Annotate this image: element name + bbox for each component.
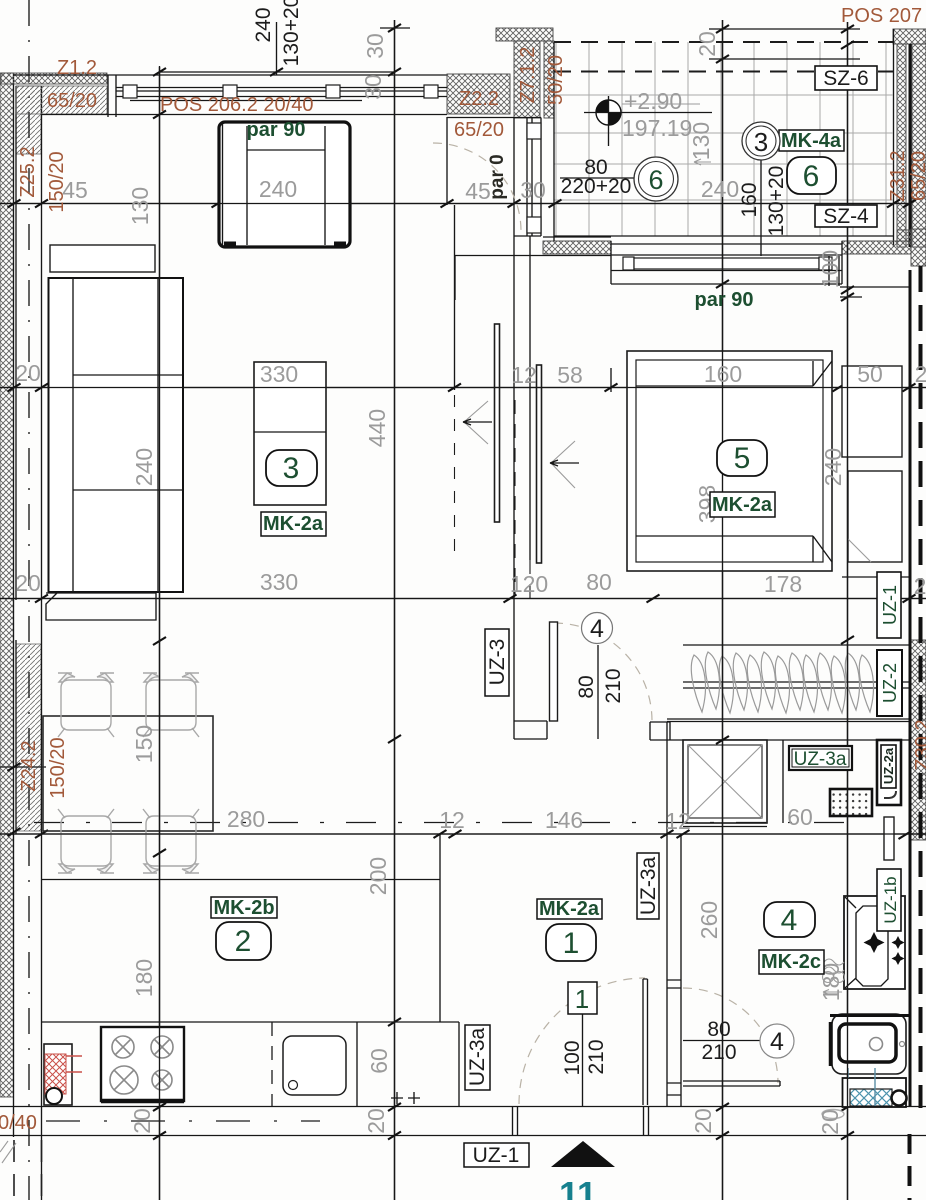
svg-text:50/20: 50/20 <box>545 55 567 105</box>
dim extension line x276 <box>276 22 278 75</box>
window POS 206.2 frame lines <box>116 88 447 101</box>
svg-text:3: 3 <box>754 127 768 157</box>
thin duct rect <box>884 817 894 860</box>
svg-text:120: 120 <box>510 571 548 597</box>
dim extension line x394 <box>394 20 396 1200</box>
box MK-4a <box>779 130 844 152</box>
wall Z2.2 crosshatch block <box>447 74 510 114</box>
stair diagonal marks bottom-left <box>0 1141 16 1163</box>
survey marker circle <box>584 96 712 146</box>
wardrobe bottom double line <box>667 719 909 722</box>
washbasin bath4 <box>844 896 905 989</box>
wall piece left of elevator <box>650 722 670 834</box>
overhang dashed line lower <box>554 71 893 73</box>
svg-text:280: 280 <box>227 806 265 832</box>
wall left inner hatched segment upper <box>16 86 41 154</box>
svg-text:20: 20 <box>817 1109 843 1135</box>
leader line door5 tag <box>597 645 599 739</box>
box UZ-1b rotated right <box>877 869 901 931</box>
svg-text:150: 150 <box>131 725 157 763</box>
dim line y387 full <box>0 387 926 389</box>
door1 leaf vertical <box>643 979 648 1105</box>
wall living/bedroom divider double line <box>514 236 530 739</box>
faucet squiggle gray <box>823 959 845 995</box>
dim extension line x847 <box>847 22 849 1200</box>
svg-text:178: 178 <box>764 571 802 597</box>
dim line y203 <box>0 203 909 205</box>
svg-text:240: 240 <box>820 448 846 486</box>
svg-text:POS 206.2 20/40: POS 206.2 20/40 <box>160 94 313 116</box>
elevator bottom double <box>683 826 767 828</box>
svg-text:130: 130 <box>688 122 714 160</box>
svg-text:180: 180 <box>131 959 157 997</box>
svg-text:2: 2 <box>235 925 252 958</box>
window mullion boxes <box>123 85 438 98</box>
svg-text:UZ-1: UZ-1 <box>880 585 900 625</box>
svg-text:1: 1 <box>563 927 580 960</box>
section arrow mark hall <box>550 441 579 488</box>
kitchen sink <box>283 1036 346 1095</box>
bathroom6 floor bottom line <box>554 42 893 241</box>
dim arrow 130 bath6 <box>694 159 711 165</box>
svg-text:20: 20 <box>15 360 41 386</box>
door frame box lower <box>527 217 541 233</box>
svg-text:60: 60 <box>787 804 813 830</box>
wall left outer face edge line <box>13 73 15 1137</box>
svg-text:80: 80 <box>575 675 598 698</box>
dim line top y59 <box>709 58 860 60</box>
door jambs bottom wall entry opening <box>513 1107 649 1136</box>
box MK-2a living <box>261 512 326 536</box>
svg-text:4: 4 <box>590 615 604 643</box>
badge 6 <box>787 157 836 194</box>
dim extension x611 stub <box>610 368 612 392</box>
svg-text:20: 20 <box>694 31 720 57</box>
dining table <box>43 716 213 831</box>
dining chairs <box>58 673 114 737</box>
wall bathroom right corner band <box>893 29 926 44</box>
sliding panel left <box>495 324 500 522</box>
dim line y767 stub <box>0 766 46 768</box>
svg-text:UZ-3a: UZ-3a <box>794 749 847 770</box>
svg-text:58: 58 <box>557 362 583 388</box>
svg-text:12: 12 <box>511 362 537 388</box>
wall top outer hatched band <box>1 73 107 84</box>
counter line y1022 <box>42 1021 460 1023</box>
svg-text:160: 160 <box>738 182 761 217</box>
svg-text:4: 4 <box>770 1028 784 1056</box>
svg-text:130+20: 130+20 <box>280 0 303 66</box>
wall centerline dash-dot left <box>28 0 30 1200</box>
svg-text:MK-2a: MK-2a <box>263 513 324 535</box>
svg-text:210: 210 <box>701 1041 736 1064</box>
svg-text:par 90: par 90 <box>695 289 754 311</box>
wall left inner face line <box>16 86 42 1200</box>
svg-text:0/40: 0/40 <box>0 1112 37 1134</box>
dashed dim y1121 <box>46 1120 320 1122</box>
svg-text:197.19: 197.19 <box>622 115 692 141</box>
kitchen counter divisions <box>357 1022 459 1106</box>
wardrobe hangers <box>691 652 873 713</box>
fraction line door6 <box>560 177 637 179</box>
badge 3 <box>266 450 317 486</box>
circle tag 4 hall <box>582 613 613 644</box>
box UZ-3a rotated hall <box>465 1025 490 1090</box>
nightstand upper <box>842 366 902 457</box>
dim line y286 right <box>840 287 909 297</box>
svg-text:130: 130 <box>127 187 153 225</box>
wall band below bathroom left block <box>543 241 611 254</box>
svg-text:POS 207: POS 207 <box>841 5 922 27</box>
box SZ-6 <box>815 66 877 90</box>
svg-text:20: 20 <box>15 570 41 596</box>
svg-text:200: 200 <box>365 857 391 895</box>
badge 4 <box>764 902 815 937</box>
sofa left <box>46 245 183 620</box>
bathroom6 tile grid horizontal <box>554 95 893 200</box>
svg-text:146: 146 <box>545 807 583 833</box>
door4 bath leaf horizontal <box>683 1081 780 1086</box>
svg-text:SZ-4: SZ-4 <box>823 205 869 228</box>
wall line y834 full <box>0 833 926 835</box>
box MK-2a hall <box>537 898 602 920</box>
wall hall stub jamb <box>514 721 547 739</box>
wall Z7.1.2 vertical strip B <box>544 41 554 118</box>
wall Z7.1.2 vertical strip A <box>514 41 540 118</box>
niche divider right of elevator <box>782 740 784 823</box>
kitchen stove <box>101 1027 184 1101</box>
svg-text:30: 30 <box>520 177 546 203</box>
bed bottom wall line <box>842 576 909 578</box>
box UZ-2 rotated right <box>877 650 902 716</box>
box UZ-2a rotated right <box>877 740 901 805</box>
svg-text:par 0: par 0 <box>487 154 508 199</box>
svg-text:Z31.2: Z31.2 <box>887 150 909 201</box>
svg-text:130+20: 130+20 <box>765 166 788 237</box>
shower drain unit <box>822 1068 907 1119</box>
dim extension line x159 <box>159 66 161 1200</box>
mixer star symbols <box>864 932 905 965</box>
badge 1 <box>546 924 596 961</box>
washing machine <box>830 1014 909 1074</box>
wall right inner face bold <box>909 270 912 1107</box>
wall bathroom right bold core line <box>909 44 912 247</box>
sideboard right vertical pair <box>829 256 839 286</box>
box UZ-3a rotated mid <box>637 853 660 919</box>
+2.90 strike line <box>622 103 700 105</box>
box UZ-1 rotated right <box>877 572 901 638</box>
wall hall/bath4 double with joints <box>667 834 681 1106</box>
wall band below bathroom right block <box>842 241 911 254</box>
sideboard inner boxes <box>623 257 832 270</box>
dim line y598 full <box>0 598 926 600</box>
svg-text:5: 5 <box>734 442 751 475</box>
door5 swing arc hall <box>554 623 652 721</box>
dishwasher dashed <box>271 1022 273 1106</box>
nightstand lower diagonal <box>848 539 871 562</box>
svg-text:12: 12 <box>439 807 465 833</box>
elevator shaft outer <box>683 740 767 823</box>
svg-text:80: 80 <box>707 1018 730 1041</box>
svg-text:240: 240 <box>131 448 157 486</box>
svg-text:4: 4 <box>781 904 798 937</box>
svg-text:30: 30 <box>362 33 388 59</box>
wall band below bathroom edges <box>455 237 611 300</box>
nightstand lower <box>848 471 902 562</box>
wardrobe rail double line <box>683 682 909 688</box>
wall bathroom right inner face <box>893 29 895 247</box>
wall right middle crosshatch upper <box>911 229 926 266</box>
svg-text:220+20: 220+20 <box>561 175 632 198</box>
badge 2 <box>216 922 271 960</box>
svg-text:2: 2 <box>914 573 926 599</box>
wall left inner hatched segment Z24.2 <box>16 644 41 831</box>
wall left outer hatched strip <box>0 73 14 1097</box>
svg-text:UZ-3a: UZ-3a <box>637 857 660 916</box>
exterior dashed continuation below bottom wall <box>14 1140 42 1200</box>
door5 leaf <box>550 622 558 721</box>
circle tag 6 <box>634 157 678 201</box>
dim line top y29 <box>709 28 860 30</box>
dim line y822 dashed chain <box>34 822 855 824</box>
svg-text:240: 240 <box>701 176 739 202</box>
coffee table room3 <box>254 362 326 505</box>
svg-text:100: 100 <box>817 250 843 288</box>
dim line y72 living <box>160 28 411 72</box>
svg-text:UZ-2a: UZ-2a <box>881 747 896 784</box>
svg-text:MK-2c: MK-2c <box>761 951 821 973</box>
svg-text:12: 12 <box>665 808 691 834</box>
wall top 65/20 hatched block <box>16 86 107 114</box>
svg-text:6: 6 <box>803 160 820 193</box>
svg-text:50: 50 <box>857 361 883 387</box>
entrance triangle <box>551 1141 615 1167</box>
sliding panel right <box>537 365 542 563</box>
svg-text:UZ-1: UZ-1 <box>473 1144 520 1167</box>
section arrow mark living <box>463 401 492 444</box>
svg-text:Z1.2: Z1.2 <box>57 57 97 79</box>
wall living/hall divider upper door frame <box>447 118 541 237</box>
dim extension line x722 <box>722 20 724 1200</box>
svg-text:100: 100 <box>561 1040 584 1075</box>
box UZ-1 bottom <box>464 1143 529 1167</box>
svg-text:2: 2 <box>915 361 926 387</box>
svg-text:Z30.2: Z30.2 <box>912 719 926 770</box>
wall bathroom right outer hatch <box>912 44 926 247</box>
wall Z7.1.2 top band <box>496 28 553 41</box>
svg-text:80: 80 <box>586 569 612 595</box>
svg-text:210: 210 <box>602 668 625 703</box>
svg-text:3: 3 <box>283 452 300 485</box>
box MK-2b kitchen <box>211 897 277 919</box>
door1 entry swing arc <box>519 978 645 1104</box>
fraction line door4b <box>683 1040 760 1042</box>
bathroom6 tile grid vertical <box>554 42 893 236</box>
kitchen zone line y879 <box>42 879 441 881</box>
door tag square 1 <box>568 982 597 1014</box>
door6 swing arc par0 <box>433 143 521 231</box>
svg-text:65/20: 65/20 <box>908 151 926 201</box>
plus marks near kitchen dim <box>391 1092 420 1104</box>
kitchen right boundary x440 <box>439 834 441 1022</box>
door frame box upper <box>527 123 541 139</box>
svg-text:Z25.2: Z25.2 <box>17 146 39 197</box>
svg-text:160: 160 <box>704 361 742 387</box>
svg-text:Z24.2: Z24.2 <box>18 740 40 791</box>
svg-text:UZ-3: UZ-3 <box>486 639 509 686</box>
svg-text:240: 240 <box>259 176 297 202</box>
box MK-2c bath <box>759 950 824 974</box>
svg-text:MK-2a: MK-2a <box>539 898 600 920</box>
svg-text:Z2.2: Z2.2 <box>459 88 499 110</box>
wall bottom band lines <box>0 1107 926 1136</box>
svg-text:UZ-1b: UZ-1b <box>881 876 900 923</box>
svg-text:11: 11 <box>559 1174 597 1200</box>
svg-text:210: 210 <box>585 1039 608 1074</box>
dim extension x447 <box>446 117 448 205</box>
svg-text:MK-2b: MK-2b <box>213 897 274 919</box>
box SZ-4 <box>815 205 877 228</box>
svg-text:1: 1 <box>575 984 589 1014</box>
roofline bold dashed right <box>919 266 923 1108</box>
bed room5 <box>627 351 832 571</box>
svg-text:6: 6 <box>648 165 663 195</box>
svg-text:UZ-3a: UZ-3a <box>466 1028 489 1087</box>
elevator X diagonals <box>688 745 762 818</box>
armchair top bold outline <box>219 122 350 247</box>
svg-text:20: 20 <box>129 1108 155 1134</box>
svg-text:330: 330 <box>260 569 298 595</box>
badge 5 <box>717 440 767 476</box>
door4 bath swing arc <box>683 988 778 1083</box>
elevator shaft inner <box>688 745 762 818</box>
circle tag 3 <box>742 122 780 160</box>
box UZ-3 rotated <box>485 629 509 696</box>
box UZ-3a green niche <box>789 746 852 770</box>
svg-text:par 90: par 90 <box>247 119 306 141</box>
roofline bold dashed right lower <box>908 1134 912 1200</box>
wall right Z30.2 crosshatch <box>911 640 926 840</box>
svg-text:UZ-2: UZ-2 <box>880 663 900 703</box>
kitchen boiler red <box>44 1044 82 1105</box>
sideboard band below bathroom lines <box>611 241 842 284</box>
svg-text:Z7.1.2: Z7.1.2 <box>517 47 539 104</box>
svg-text:240: 240 <box>252 7 275 42</box>
svg-text:MK-4a: MK-4a <box>781 130 842 152</box>
svg-text:SZ-6: SZ-6 <box>823 67 869 90</box>
overhang dashed line upper <box>554 41 893 43</box>
svg-text:440: 440 <box>364 409 390 447</box>
box MK-2a bedroom <box>710 492 775 517</box>
svg-text:65/20: 65/20 <box>47 90 97 112</box>
svg-text:30: 30 <box>360 74 386 100</box>
svg-text:65/20: 65/20 <box>454 119 504 141</box>
dim extension x454 solid then dashed <box>454 205 456 390</box>
leader line door1 tag <box>582 1014 584 1106</box>
svg-text:45: 45 <box>62 177 88 203</box>
svg-text:20: 20 <box>363 1108 389 1134</box>
svg-text:60: 60 <box>366 1048 392 1074</box>
wall top faces around window <box>13 75 447 117</box>
svg-text:330: 330 <box>260 361 298 387</box>
wall bathroom right inner strip <box>897 44 906 247</box>
svg-text:20: 20 <box>690 1108 716 1134</box>
svg-text:150/20: 150/20 <box>47 737 69 798</box>
wall divider dashed lower part <box>515 400 530 598</box>
svg-text:MK-2a: MK-2a <box>712 494 773 516</box>
leader line circle3 to wall <box>760 160 762 256</box>
dotted vent block <box>830 789 872 816</box>
svg-text:+2.90: +2.90 <box>624 88 682 114</box>
circle tag 4 bath <box>760 1024 794 1058</box>
svg-text:260: 260 <box>696 901 722 939</box>
wardrobe top line <box>683 644 909 646</box>
hall top line y740 <box>667 739 909 741</box>
